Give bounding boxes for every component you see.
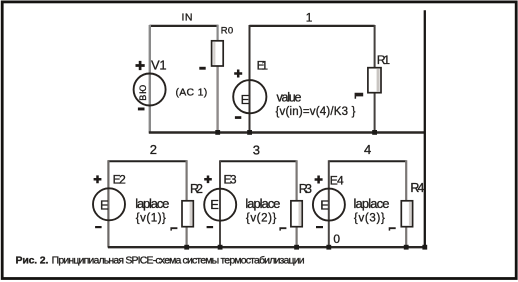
R1 minus	[355, 93, 364, 99]
controlled source E3	[204, 189, 236, 221]
controlled source E2	[93, 188, 125, 220]
svg-text:R1: R1	[377, 53, 391, 67]
wire top ground rail	[149, 131, 426, 133]
controlled source E4	[313, 189, 345, 221]
wire right bus vertical	[424, 10, 426, 247]
wire R3 vertical	[296, 160, 298, 247]
E2 minus	[95, 226, 102, 228]
wire loop4 top	[329, 160, 407, 162]
E1 plus	[234, 70, 242, 78]
svg-text:laplace: laplace	[245, 196, 280, 211]
R2 inner shade	[190, 202, 193, 225]
controlled source E1	[233, 80, 266, 113]
E3 minus	[207, 226, 214, 228]
svg-text:value: value	[277, 90, 302, 104]
voltage source V1	[134, 74, 166, 106]
svg-text:1: 1	[306, 11, 313, 25]
E1 minus	[235, 116, 241, 119]
wire V1 vertical	[149, 25, 151, 133]
junction R3-rail	[294, 245, 299, 250]
resistor R0	[212, 41, 224, 66]
svg-text:IN: IN	[182, 12, 193, 24]
svg-text:laplace: laplace	[135, 196, 169, 211]
junction R0-rail	[215, 130, 220, 135]
E4 plus	[315, 176, 323, 184]
svg-text:E: E	[320, 197, 329, 212]
svg-text:(AC 1): (AC 1)	[176, 86, 208, 98]
V1 plus	[136, 61, 145, 70]
wire E3 vertical	[219, 160, 221, 247]
svg-text:2: 2	[150, 142, 157, 157]
svg-text:{v(1)}: {v(1)}	[136, 212, 166, 224]
svg-text:R4: R4	[410, 181, 424, 195]
svg-text:4: 4	[364, 142, 371, 157]
R3 minus	[279, 227, 286, 230]
svg-text:E1: E1	[257, 58, 269, 72]
svg-text:0: 0	[333, 232, 340, 246]
junction bus-rail	[422, 245, 427, 250]
junction E4-rail	[326, 245, 331, 250]
wire loop2 top	[108, 160, 187, 162]
svg-text:laplace: laplace	[354, 196, 390, 211]
wire loop3 top	[220, 160, 297, 162]
svg-text:E: E	[100, 198, 109, 213]
resistor R1	[368, 68, 381, 93]
resistor R3	[291, 201, 302, 227]
wire top right loop	[249, 25, 374, 27]
svg-text:{v(in)=v(4)/K3 }: {v(in)=v(4)/K3 }	[276, 106, 356, 118]
svg-text:V1: V1	[151, 58, 167, 73]
svg-text:E3: E3	[224, 173, 237, 187]
wire R0 vertical lower	[216, 66, 218, 133]
R0 inner shade	[213, 42, 215, 65]
svg-text:R0: R0	[221, 26, 233, 37]
R4 minus	[389, 227, 396, 230]
R3 inner shade	[299, 202, 302, 225]
E3 plus	[204, 176, 212, 184]
E4 minus	[316, 226, 323, 228]
junction E3-rail	[218, 245, 223, 250]
svg-text:E: E	[241, 92, 250, 107]
R2 minus	[170, 227, 177, 230]
wire E4 vertical	[328, 160, 330, 247]
wire E2 vertical	[107, 160, 109, 247]
svg-text:E: E	[210, 197, 219, 212]
svg-text:R3: R3	[299, 182, 312, 196]
wire R4 vertical	[405, 160, 407, 247]
junction E1-rail	[247, 130, 252, 135]
resistor R2	[182, 201, 193, 227]
svg-text:E4: E4	[330, 174, 344, 188]
R0 minus	[199, 67, 205, 70]
wire top left loop	[150, 25, 219, 27]
junction R2-rail	[184, 245, 189, 250]
wire R2 vertical	[186, 160, 188, 247]
junction R1-rail	[372, 130, 377, 135]
wire R0 vertical upper	[217, 25, 219, 42]
svg-text:R2: R2	[190, 182, 203, 196]
V1 minus	[138, 108, 145, 111]
svg-text:ВЮ: ВЮ	[138, 85, 148, 101]
R4 inner shade	[409, 202, 412, 225]
resistor R4	[401, 201, 412, 227]
svg-text:E2: E2	[113, 173, 127, 187]
E2 plus	[94, 175, 102, 183]
svg-text:3: 3	[253, 142, 260, 157]
svg-text:{v(2)}: {v(2)}	[246, 212, 277, 224]
wire bottom ground rail	[108, 246, 426, 248]
svg-text:Рис. 2.Принципиальная SPICE-сх: Рис. 2.Принципиальная SPICE-схема систем…	[16, 255, 305, 267]
junction R4-rail	[404, 245, 409, 250]
R1 inner shade	[377, 69, 380, 92]
wire E1 vertical	[249, 25, 251, 133]
svg-text:{v(3)}: {v(3)}	[354, 212, 385, 224]
wire R1 vertical	[374, 25, 376, 133]
